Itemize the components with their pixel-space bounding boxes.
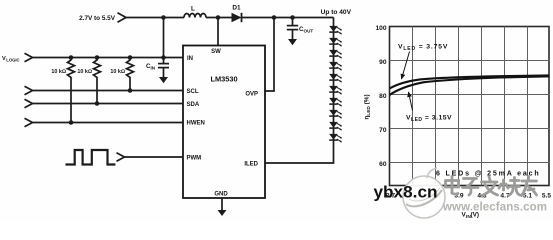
watermark circle logo bbox=[403, 168, 445, 218]
svg-text:PWM: PWM bbox=[187, 156, 202, 162]
node R1 to HWEN bbox=[69, 120, 74, 125]
svg-text:Up to 40V: Up to 40V bbox=[321, 9, 352, 16]
svg-text:10 kΩ: 10 kΩ bbox=[110, 69, 125, 75]
svg-text:IN: IN bbox=[151, 66, 156, 71]
svg-text:60: 60 bbox=[379, 161, 387, 168]
svg-text:5.5: 5.5 bbox=[542, 193, 551, 200]
wire inductor to diode bbox=[206, 17, 232, 19]
svg-text:80: 80 bbox=[379, 93, 387, 100]
svg-text:10 kΩ: 10 kΩ bbox=[77, 69, 92, 75]
LED D7 bbox=[329, 86, 342, 95]
annotation VLED 3.15V bbox=[406, 92, 452, 123]
watermark chinese char dian bbox=[446, 177, 459, 195]
capacitor CIN bbox=[146, 63, 169, 77]
PWM square wave source bbox=[66, 150, 116, 165]
wire GND stub bbox=[221, 198, 223, 211]
svg-text:2.7V to 5.5V: 2.7V to 5.5V bbox=[79, 15, 116, 22]
op-amp U1 LM3530 IC body bbox=[183, 46, 265, 199]
wire diode to LED string corner bbox=[242, 17, 334, 19]
LED D9 bbox=[329, 110, 342, 119]
svg-text:90: 90 bbox=[379, 59, 387, 66]
node R2 to SDA bbox=[95, 101, 100, 106]
wire VIN to inductor bbox=[126, 17, 184, 19]
svg-text:LOGIC: LOGIC bbox=[6, 57, 19, 62]
inductor L bbox=[184, 14, 206, 18]
LED D6 bbox=[329, 74, 342, 83]
ground GND pin bbox=[218, 210, 227, 216]
chart x axis labels bbox=[386, 193, 551, 200]
wire HWEN bbox=[33, 122, 184, 124]
curve VLED 3.15V bbox=[390, 76, 550, 95]
LED D3 bbox=[329, 38, 342, 47]
wire PWM bbox=[125, 156, 184, 158]
svg-text:LM3530: LM3530 bbox=[210, 75, 237, 84]
LED D2 bbox=[329, 26, 342, 35]
annotation VLED 3.75V bbox=[398, 44, 448, 80]
node SW junction bbox=[216, 15, 221, 20]
svg-text:SCL: SCL bbox=[187, 89, 199, 95]
LED D4 bbox=[329, 50, 342, 59]
svg-text:OVP: OVP bbox=[245, 92, 258, 98]
LED D10 bbox=[329, 122, 342, 131]
wire VIN rail down to IN bbox=[163, 18, 165, 64]
wire SCL bbox=[33, 90, 184, 92]
chart plot box bbox=[390, 27, 550, 186]
watermark chinese char you bbox=[522, 177, 537, 196]
input arrow HWEN bbox=[25, 118, 33, 127]
node R2 top bbox=[95, 55, 100, 60]
chart horizontal gridlines bbox=[390, 61, 550, 163]
resistor R3 10k bbox=[127, 58, 134, 91]
wire SDA bbox=[33, 103, 184, 105]
node COUT tap bbox=[290, 15, 295, 20]
input arrow SDA bbox=[25, 99, 33, 108]
svg-text:SW: SW bbox=[211, 49, 221, 55]
wire LED string vertical bbox=[265, 18, 334, 164]
wire SW node to SW pin bbox=[217, 18, 219, 46]
wire OVP feedback bbox=[265, 18, 274, 92]
svg-text:IN: IN bbox=[187, 56, 193, 62]
svg-text:GND: GND bbox=[214, 192, 228, 198]
svg-text:HWEN: HWEN bbox=[187, 121, 205, 127]
input arrow PWM bbox=[117, 153, 125, 162]
node rail tap bbox=[161, 15, 166, 20]
wire VLOGIC rail to IN pin bbox=[33, 57, 184, 59]
curve VLED 3.75V bbox=[390, 75, 550, 88]
input arrow SCL bbox=[25, 86, 33, 95]
svg-text:www.elecfans.com: www.elecfans.com bbox=[442, 202, 547, 214]
node R3 top bbox=[128, 55, 133, 60]
diode D1 bbox=[232, 5, 242, 23]
node OVP tap bbox=[272, 15, 277, 20]
watermark chinese char zi bbox=[463, 179, 479, 196]
svg-text:ηLED (%): ηLED (%) bbox=[364, 94, 372, 119]
svg-text:70: 70 bbox=[379, 127, 387, 134]
ground COUT bbox=[288, 39, 297, 45]
node R3 to SCL bbox=[128, 88, 133, 93]
capacitor COUT bbox=[287, 18, 314, 40]
LED D5 bbox=[329, 62, 342, 71]
node CIN junction bbox=[161, 55, 166, 60]
input arrow VIN bbox=[118, 13, 127, 22]
svg-text:100: 100 bbox=[375, 25, 386, 32]
svg-text:D1: D1 bbox=[232, 5, 241, 12]
svg-text:ILED: ILED bbox=[244, 162, 258, 168]
chart vertical gridlines bbox=[413, 27, 528, 186]
chart y axis labels bbox=[375, 25, 386, 168]
resistor R1 10k bbox=[68, 58, 75, 123]
LED D8 bbox=[329, 98, 342, 107]
watermark chinese char shao bbox=[499, 178, 520, 196]
svg-text:VLED = 3.75V: VLED = 3.75V bbox=[398, 44, 448, 52]
LED D11 bbox=[329, 134, 342, 143]
watermark chinese char fa bbox=[482, 177, 498, 196]
node R1 top bbox=[69, 55, 74, 60]
svg-text:L: L bbox=[191, 6, 195, 13]
input arrow VLOGIC bbox=[25, 53, 33, 62]
svg-text:OUT: OUT bbox=[304, 29, 314, 34]
svg-text:SDA: SDA bbox=[187, 102, 200, 108]
svg-text:ybx8.cn: ybx8.cn bbox=[374, 183, 438, 202]
svg-text:10 kΩ: 10 kΩ bbox=[51, 69, 66, 75]
ground CIN bbox=[159, 77, 168, 83]
resistor R2 10k bbox=[94, 58, 101, 104]
